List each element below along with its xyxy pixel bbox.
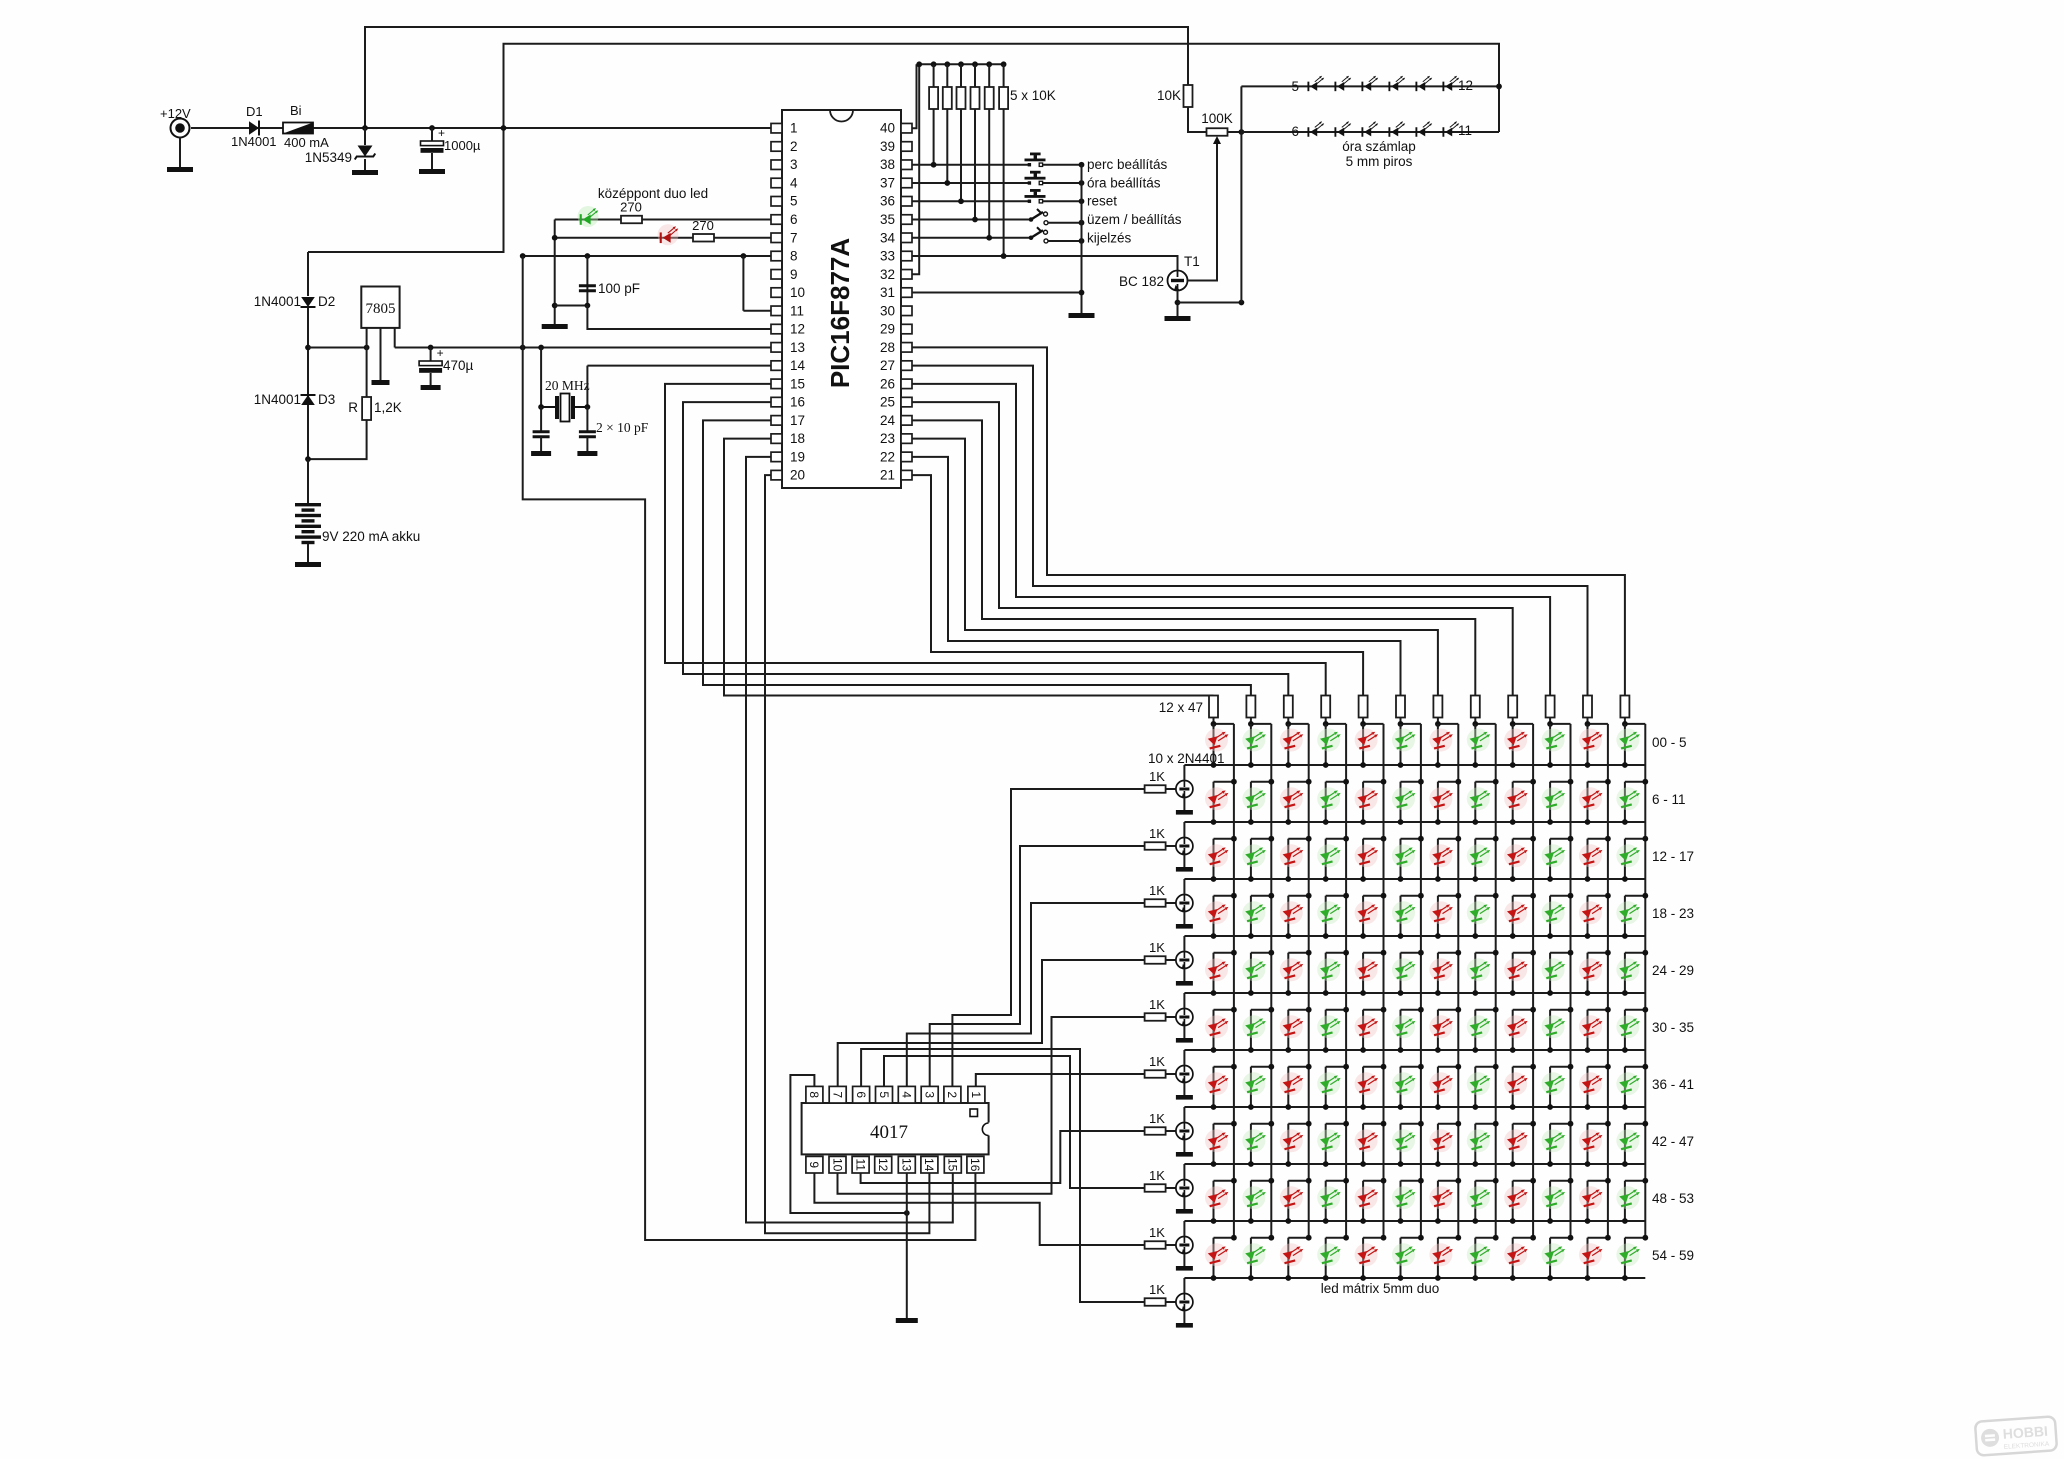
diode D1 1N4001	[249, 121, 259, 136]
wire 7805 output pin	[394, 328, 396, 348]
wire 4017 pin 8 to ground net	[790, 1075, 906, 1213]
LED matrix r10c9	[1504, 1243, 1528, 1266]
wire c4 row-5 branch	[1325, 953, 1327, 993]
LED matrix r5c10	[1542, 958, 1566, 981]
wire c11 row-4 branch	[1587, 896, 1589, 936]
wire rail to 10K resistor	[1003, 64, 1005, 87]
junction c12 row-2 connector	[1642, 779, 1648, 785]
junction c10 row-7 connector	[1568, 1064, 1574, 1070]
wire matrix column line 2	[1270, 724, 1272, 1239]
pin 19 of U1	[771, 452, 782, 462]
LED matrix r7c6	[1392, 1072, 1416, 1095]
svg-text:24: 24	[880, 413, 896, 428]
wire c10 row-8 connector	[1550, 1123, 1570, 1125]
junction c4 row line 6	[1323, 1047, 1329, 1053]
diode D2 1N4001	[301, 297, 316, 307]
wire c4 row-7 connector	[1326, 1066, 1346, 1068]
junction c5 row line 6	[1360, 1047, 1366, 1053]
transistor T8 2N4401	[1176, 1123, 1193, 1140]
wire column 3 row-1 branch	[1287, 724, 1289, 765]
junction c12 row line 1	[1622, 762, 1628, 768]
junction c8 row line 7	[1472, 1104, 1478, 1110]
junction c3 row line 1	[1285, 762, 1291, 768]
pin 9 of U3	[806, 1156, 823, 1173]
wire row 3 to collector	[1183, 879, 1185, 895]
wire c6 row-4 connector	[1401, 895, 1421, 897]
LED matrix r3c9	[1504, 844, 1528, 867]
svg-text:5: 5	[1291, 79, 1299, 94]
transistor T7 2N4401	[1176, 1066, 1193, 1083]
wire c5 row-5 connector	[1363, 952, 1383, 954]
junction c11 row line 9	[1585, 1218, 1591, 1224]
wire c1 row-9 branch	[1213, 1181, 1215, 1221]
wire c3 row-9 branch	[1287, 1181, 1289, 1221]
junction c6 row-7 connector	[1418, 1064, 1424, 1070]
wire pin 20 to 4017 pin 14	[765, 475, 929, 1233]
junction c7 row line 4	[1435, 933, 1441, 939]
zener diode 1N5349	[355, 146, 376, 160]
junction c11 row line 8	[1585, 1161, 1591, 1167]
junction c12 row-10 connector	[1642, 1235, 1648, 1241]
wire c2 row-8 branch	[1250, 1124, 1252, 1164]
wire c7 row-6 connector	[1438, 1009, 1458, 1011]
wire right 10pF to ground	[586, 437, 588, 451]
resistor 47R column 12	[1620, 696, 1629, 718]
wire 1K to base	[1166, 1244, 1176, 1246]
resistor 47R column 1	[1209, 696, 1218, 718]
junction c1 row-2 connector	[1231, 779, 1237, 785]
wire c9 row-3 branch	[1512, 839, 1514, 879]
LED matrix r1c7	[1429, 729, 1453, 752]
junction c3 row-9 connector	[1306, 1178, 1312, 1184]
pin 23 of U1	[901, 434, 912, 444]
junction pin 31 / common	[1079, 290, 1085, 296]
wire c4 row-3 connector	[1326, 838, 1346, 840]
resistor 10K #5 (5 x 10K)	[985, 87, 994, 109]
junction column 10 top	[1547, 721, 1553, 727]
junction D2 / 7805 input	[305, 345, 311, 351]
LED matrix r3c12	[1616, 844, 1640, 867]
wire c7 row-9 connector	[1438, 1180, 1458, 1182]
junction c9 row-3 connector	[1530, 836, 1536, 842]
junction c9 row line 10	[1510, 1275, 1516, 1281]
wire c4 row-9 branch	[1325, 1181, 1327, 1221]
LED matrix r6c7	[1429, 1015, 1453, 1038]
wire c7 row-7 branch	[1437, 1067, 1439, 1107]
junction c10 row line 6	[1547, 1047, 1553, 1053]
wire rail to 10K resistor	[933, 64, 935, 87]
svg-text:1N4001: 1N4001	[254, 294, 301, 309]
wire c11 row-9 connector	[1588, 1180, 1608, 1182]
junction c3 row-6 connector	[1306, 1007, 1312, 1013]
wire button to common	[1043, 200, 1082, 202]
junction c2 row-9 connector	[1268, 1178, 1274, 1184]
pin 12 of U3	[875, 1156, 892, 1173]
LED matrix r5c4	[1317, 958, 1341, 981]
wire c10 row-7 connector	[1550, 1066, 1570, 1068]
wire c3 row-4 connector	[1288, 895, 1308, 897]
ground T3	[1176, 867, 1193, 872]
junction c1 row-8 connector	[1231, 1121, 1237, 1127]
svg-text:270: 270	[692, 218, 714, 233]
junction c8 row-9 connector	[1493, 1178, 1499, 1184]
wire c1 row-4 connector	[1214, 895, 1234, 897]
LED matrix r8c6	[1392, 1129, 1416, 1152]
ground 470u	[421, 385, 441, 390]
junction c6 row line 6	[1398, 1047, 1404, 1053]
resistor 270 (green)	[621, 216, 642, 224]
junction c9 row-10 connector	[1530, 1235, 1536, 1241]
wire c3 row-3 branch	[1287, 839, 1289, 879]
wire c3 row-2 connector	[1288, 781, 1308, 783]
pin 17 of U1	[771, 416, 782, 426]
wire pin 40 to pull-up rail	[912, 64, 917, 128]
wire clock LED row B	[1241, 131, 1499, 133]
junction c8 row line 1	[1472, 762, 1478, 768]
ground T4	[1176, 924, 1193, 929]
wire 47R column 8 stub	[1474, 718, 1476, 724]
wire c11 row-2 branch	[1587, 782, 1589, 822]
junction c7 row-2 connector	[1455, 779, 1461, 785]
LED matrix r4c11	[1579, 901, 1603, 924]
wire c7 row-5 branch	[1437, 953, 1439, 993]
wire connector to ground	[179, 137, 181, 168]
wire c3 row-8 connector	[1288, 1123, 1308, 1125]
wire c12 row-6 branch	[1624, 1010, 1626, 1050]
LED matrix r4c10	[1542, 901, 1566, 924]
pin 5 of U3	[876, 1086, 893, 1103]
LED matrix r5c7	[1429, 958, 1453, 981]
wire 47R column 7 stub	[1437, 718, 1439, 724]
LED matrix r6c5	[1355, 1015, 1379, 1038]
ground T7	[1176, 1095, 1193, 1100]
wire pin 8	[523, 255, 771, 257]
junction c5 row line 4	[1360, 933, 1366, 939]
wire to battery	[307, 459, 309, 503]
junction R6 / pin-33 wire	[1001, 253, 1007, 259]
junction c1 row-6 connector	[1231, 1007, 1237, 1013]
LED matrix r9c4	[1317, 1186, 1341, 1209]
svg-text:1K: 1K	[1149, 997, 1165, 1012]
junction c9 row line 2	[1510, 819, 1516, 825]
LED matrix r8c8	[1467, 1129, 1491, 1152]
LED matrix r8c10	[1542, 1129, 1566, 1152]
junction c9 row line 8	[1510, 1161, 1516, 1167]
wire 1K to base	[1166, 902, 1176, 904]
wire pin to button S1	[912, 164, 1029, 166]
wire pin to button S5	[912, 237, 1029, 239]
LED matrix r10c3	[1280, 1243, 1304, 1266]
wire 4017 output to T3 base	[930, 846, 1145, 1086]
wire c11 row-2 connector	[1588, 781, 1608, 783]
svg-text:30: 30	[880, 303, 895, 318]
LED matrix r10c2	[1242, 1243, 1266, 1266]
wire emitter T2	[1183, 798, 1185, 811]
junction c9 row-8 connector	[1530, 1121, 1536, 1127]
junction c5 row line 2	[1360, 819, 1366, 825]
svg-text:15: 15	[790, 376, 805, 391]
wire 10K resistor down	[946, 109, 948, 183]
junction pull-up R4 / button row	[972, 217, 978, 223]
wire c12 row-10 connector	[1625, 1237, 1645, 1239]
wire matrix column line 11	[1607, 724, 1609, 1239]
transistor T9 2N4401	[1176, 1180, 1193, 1197]
junction c6 row-6 connector	[1418, 1007, 1424, 1013]
svg-text:6: 6	[854, 1091, 868, 1098]
LED matrix r1c9	[1504, 729, 1528, 752]
svg-text:1K: 1K	[1149, 1054, 1165, 1069]
wire pull-up +5V rail	[917, 63, 1004, 65]
pin 18 of U1	[771, 434, 782, 444]
transistor T3 2N4401	[1176, 838, 1193, 855]
junction c6 row line 4	[1398, 933, 1404, 939]
LED matrix r8c7	[1429, 1129, 1453, 1152]
wire 1K to base	[1166, 1016, 1176, 1018]
wire c7 row-7 connector	[1438, 1066, 1458, 1068]
junction c11 row line 5	[1585, 990, 1591, 996]
wire 4017 output to T2 base	[952, 789, 1144, 1086]
wire button to common	[1043, 182, 1082, 184]
junction c5 row-7 connector	[1381, 1064, 1387, 1070]
junction c1 row line 5	[1211, 990, 1217, 996]
pin 15 of U3	[944, 1156, 961, 1173]
junction column 11 top	[1585, 721, 1591, 727]
junction pull-up rail R3	[958, 61, 964, 67]
junction c1 row line 9	[1211, 1218, 1217, 1224]
junction c8 row-7 connector	[1493, 1064, 1499, 1070]
capacitor 10 pF (left)	[533, 432, 550, 437]
svg-text:2: 2	[945, 1091, 959, 1098]
junction column 3 top	[1285, 721, 1291, 727]
svg-text:9V 220 mA akku: 9V 220 mA akku	[322, 529, 420, 544]
junction c10 row line 10	[1547, 1275, 1553, 1281]
wire c3 row-10 branch	[1287, 1238, 1289, 1278]
wire c7 row-2 connector	[1438, 781, 1458, 783]
wire column 6 top connector	[1401, 723, 1421, 725]
wire c2 row-5 connector	[1251, 952, 1271, 954]
junction button S5 / common	[1079, 238, 1085, 244]
junction c3 row-2 connector	[1306, 779, 1312, 785]
svg-text:Bi: Bi	[290, 103, 302, 118]
junction c7 row-6 connector	[1455, 1007, 1461, 1013]
junction c7 row-4 connector	[1455, 893, 1461, 899]
wire matrix row line 2	[1184, 821, 1645, 823]
svg-text:1K: 1K	[1149, 940, 1165, 955]
wire 47R column 12 stub	[1624, 718, 1626, 724]
wire c10 row-5 connector	[1550, 952, 1570, 954]
junction c1 row line 3	[1211, 876, 1217, 882]
svg-text:100K: 100K	[1201, 111, 1233, 126]
junction c6 row line 1	[1398, 762, 1404, 768]
wire c10 row-4 connector	[1550, 895, 1570, 897]
svg-text:8: 8	[790, 249, 798, 264]
junction c5 row line 3	[1360, 876, 1366, 882]
transistor T1 BC182	[1168, 271, 1188, 291]
capacitor 100 pF	[579, 286, 596, 291]
junction c12 row-5 connector	[1642, 950, 1648, 956]
wire pin 23 to matrix column 7	[912, 439, 1438, 696]
svg-text:400 mA: 400 mA	[284, 135, 329, 150]
LED matrix r6c3	[1280, 1015, 1304, 1038]
wire rail to 10K resistor	[988, 64, 990, 87]
svg-text:26: 26	[880, 376, 895, 391]
svg-text:30 - 35: 30 - 35	[1652, 1020, 1694, 1035]
LED matrix r1c2	[1242, 729, 1266, 752]
wire c9 row-4 branch	[1512, 896, 1514, 936]
junction 100pF bottom	[585, 303, 591, 309]
wire emitter T4	[1183, 912, 1185, 925]
junction c6 row-2 connector	[1418, 779, 1424, 785]
LED matrix r10c11	[1579, 1243, 1603, 1266]
wire c8 row-10 connector	[1475, 1237, 1495, 1239]
wire column 1 row-1 branch	[1213, 724, 1215, 765]
wire 1K to base	[1166, 1073, 1176, 1075]
wire c2 row-7 branch	[1250, 1067, 1252, 1107]
wire c4 row-7 branch	[1325, 1067, 1327, 1107]
junction c1 row line 7	[1211, 1104, 1217, 1110]
LED matrix r8c11	[1579, 1129, 1603, 1152]
ground duo-led common	[542, 324, 568, 329]
junction c7 row line 9	[1435, 1218, 1441, 1224]
junction c7 row line 6	[1435, 1047, 1441, 1053]
wire c5 row-2 branch	[1362, 782, 1364, 822]
svg-text:óra beállítás: óra beállítás	[1087, 175, 1161, 190]
wire 7805 left pin	[366, 328, 368, 348]
junction T1 emitter	[1175, 300, 1181, 306]
LED matrix r7c3	[1280, 1072, 1304, 1095]
wire c10 row-9 branch	[1549, 1181, 1551, 1221]
svg-text:37: 37	[880, 175, 895, 190]
pin 29 of U1	[901, 324, 912, 334]
junction c12 row line 10	[1622, 1275, 1628, 1281]
wire c2 row-7 connector	[1251, 1066, 1271, 1068]
resistor 1K row 1	[1145, 785, 1166, 793]
svg-text:középpont duo led: középpont duo led	[598, 186, 708, 201]
wire crystal right branch	[586, 366, 588, 407]
wire matrix row line 7	[1184, 1106, 1645, 1108]
svg-text:led mátrix 5mm duo: led mátrix 5mm duo	[1321, 1281, 1440, 1296]
pin 11 of U3	[852, 1156, 869, 1173]
wire c11 row-7 connector	[1588, 1066, 1608, 1068]
pin 3 of U3	[921, 1086, 938, 1103]
pin 32 of U1	[901, 270, 912, 280]
transistor T5 2N4401	[1176, 952, 1193, 969]
wire pin 27 to matrix column 11	[912, 366, 1588, 696]
svg-text:1K: 1K	[1149, 1168, 1165, 1183]
junction c6 row-9 connector	[1418, 1178, 1424, 1184]
wire c12 row-2 branch	[1624, 782, 1626, 822]
junction c10 row line 1	[1547, 762, 1553, 768]
junction c8 row line 2	[1472, 819, 1478, 825]
pin 21 of U1	[901, 470, 912, 480]
push-button S4 (changeover)	[1029, 209, 1048, 225]
resistor 47R column 6	[1396, 696, 1405, 718]
wire pin 28 to matrix column 12	[912, 347, 1625, 695]
pin 8 of U3	[806, 1086, 823, 1103]
resistor 1K row 4	[1145, 956, 1166, 964]
junction +5V riser / pin13 line	[520, 345, 526, 351]
wire c9 row-6 branch	[1512, 1010, 1514, 1050]
battery 9V 220 mA akku	[295, 503, 321, 544]
junction c4 row line 7	[1323, 1104, 1329, 1110]
wire c10 row-6 connector	[1550, 1009, 1570, 1011]
LED matrix r2c7	[1429, 787, 1453, 810]
junction c10 row-6 connector	[1568, 1007, 1574, 1013]
junction c6 row-10 connector	[1418, 1235, 1424, 1241]
pin 16 of U1	[771, 397, 782, 407]
wire 470u to ground	[430, 373, 432, 385]
junction c9 row-2 connector	[1530, 779, 1536, 785]
svg-text:14: 14	[922, 1158, 936, 1172]
junction c12 row-3 connector	[1642, 836, 1648, 842]
junction c9 row line 5	[1510, 990, 1516, 996]
LED matrix r1c6	[1392, 729, 1416, 752]
wire row 9 to collector	[1183, 1221, 1185, 1237]
wire c1 row-10 branch	[1213, 1238, 1215, 1278]
svg-text:2: 2	[790, 139, 798, 154]
junction button S3 / common	[1079, 198, 1085, 204]
wire rail2 to D2	[307, 252, 309, 296]
junction c9 row-9 connector	[1530, 1178, 1536, 1184]
wire c11 row-4 connector	[1588, 895, 1608, 897]
LED matrix r7c12	[1616, 1072, 1640, 1095]
wire c6 row-4 branch	[1400, 896, 1402, 936]
wire c5 row-4 branch	[1362, 896, 1364, 936]
junction column 6 top	[1398, 721, 1404, 727]
junction c10 row-2 connector	[1568, 779, 1574, 785]
svg-text:00 - 5: 00 - 5	[1652, 735, 1687, 750]
junction c3 row-5 connector	[1306, 950, 1312, 956]
wire c9 row-3 connector	[1513, 838, 1533, 840]
junction c11 row line 4	[1585, 933, 1591, 939]
wire c12 row-2 connector	[1625, 781, 1645, 783]
wire c3 row-10 connector	[1288, 1237, 1308, 1239]
notch of 4017	[987, 1123, 991, 1136]
junction c12 row line 9	[1622, 1218, 1628, 1224]
junction c1 row line 2	[1211, 819, 1217, 825]
svg-text:16: 16	[790, 395, 805, 410]
wire c12 row-6 connector	[1625, 1009, 1645, 1011]
watermark logo	[1975, 1416, 2057, 1455]
wire emitter T3	[1183, 855, 1185, 868]
wire c11 row-7 branch	[1587, 1067, 1589, 1107]
wire c2 row-6 connector	[1251, 1009, 1271, 1011]
wire pin 24 to matrix column 8	[912, 420, 1475, 695]
pin 38 of U1	[901, 160, 912, 170]
svg-text:10: 10	[790, 285, 805, 300]
transistor T4 2N4401	[1176, 895, 1193, 912]
LED hour dial A3	[1361, 76, 1378, 91]
pin 10 of U1	[771, 288, 782, 298]
LED hour dial B5	[1415, 121, 1432, 136]
junction column 4 top	[1323, 721, 1329, 727]
wire c8 row-3 connector	[1475, 838, 1495, 840]
junction c5 row line 10	[1360, 1275, 1366, 1281]
wire c11 row-5 connector	[1588, 952, 1608, 954]
svg-text:6: 6	[790, 212, 798, 227]
junction c7 row line 5	[1435, 990, 1441, 996]
svg-text:1K: 1K	[1149, 883, 1165, 898]
svg-text:18 - 23: 18 - 23	[1652, 906, 1694, 921]
junction c11 row-7 connector	[1605, 1064, 1611, 1070]
junction c5 row line 1	[1360, 762, 1366, 768]
wire column 9 top connector	[1513, 723, 1533, 725]
wire c4 row-8 branch	[1325, 1124, 1327, 1164]
wire c8 row-8 connector	[1475, 1123, 1495, 1125]
resistor 10K #6 (5 x 10K)	[999, 87, 1008, 109]
push-button S1	[1025, 153, 1046, 167]
wire 10K to 100K	[1188, 107, 1207, 132]
